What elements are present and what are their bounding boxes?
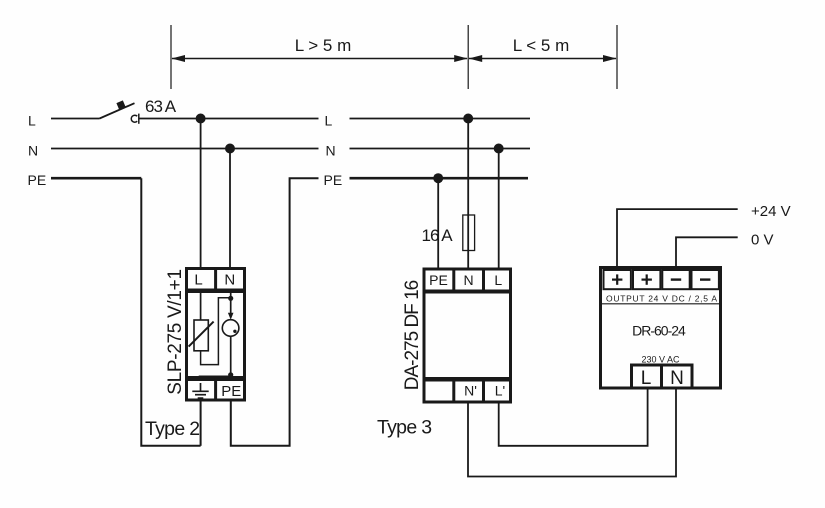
dimension line L < 5 m [469, 55, 617, 62]
wire with arrow into gas discharge tube [228, 298, 234, 319]
wire L node through fuse to DA N terminal [467, 119, 469, 269]
svg-text:Type 2: Type 2 [145, 418, 199, 440]
DA-275 terminal row bottom [424, 379, 511, 403]
wire DR 0V output [676, 237, 738, 267]
svg-text:L: L [641, 368, 652, 389]
DA-275 terminal row top [424, 268, 511, 292]
svg-text:L: L [28, 112, 36, 128]
switch 63A actuator square [116, 100, 125, 109]
node PE to DA PE terminal [433, 173, 443, 183]
wire L terminal to varistor [200, 292, 202, 321]
wire L bus to node [139, 118, 319, 120]
wire PE bus left [51, 177, 141, 180]
wire PE bus right [350, 177, 529, 180]
SLP-275 body U1 [187, 292, 245, 378]
wire DA L' to DR L terminal [499, 388, 648, 446]
DR terminal cell -2 [692, 270, 719, 289]
node L to fuse [463, 114, 473, 124]
minus symbol 2 [700, 278, 710, 280]
dimension line L > 5 m [172, 55, 468, 62]
wire SLP ground terminal down [200, 402, 202, 446]
svg-text:230 V AC: 230 V AC [641, 354, 680, 364]
wire N node to SLP N terminal [229, 149, 231, 268]
wire L node to SLP L terminal [200, 119, 202, 268]
svg-text:0 V: 0 V [751, 231, 774, 248]
gas discharge tube GDT1 [222, 320, 239, 337]
wire DA N' to DR N terminal [468, 388, 676, 477]
svg-text:PE: PE [28, 172, 47, 188]
svg-text:L < 5 m: L < 5 m [513, 36, 570, 55]
svg-text:N: N [670, 368, 684, 389]
varistor RV1 [189, 320, 214, 351]
svg-text:N': N' [464, 383, 477, 399]
DR terminal cell +1 [604, 270, 631, 289]
svg-text:N: N [326, 143, 336, 159]
svg-text:N: N [463, 272, 473, 288]
svg-text:SLP-275 V/1+1: SLP-275 V/1+1 [165, 269, 186, 395]
dot inside GDT [233, 330, 236, 333]
wire SLP PE terminal to PE bus [231, 178, 319, 446]
wire varistor bottom to N branch [201, 298, 231, 365]
ground symbol in SLP bottom-left cell [192, 383, 208, 398]
wire N bus left [51, 148, 319, 150]
svg-text:PE: PE [221, 383, 241, 400]
node inside SLP top [228, 296, 233, 301]
wire N bus right [350, 148, 531, 150]
svg-text:PE: PE [324, 172, 343, 188]
separator line DR [602, 303, 719, 305]
svg-text:L: L [325, 112, 333, 128]
plus symbol 2 [642, 274, 652, 284]
wire L bus left [51, 118, 100, 120]
svg-text:+24 V: +24 V [751, 203, 791, 220]
svg-text:16 A: 16 A [422, 226, 454, 245]
svg-text:DR-60-24: DR-60-24 [632, 323, 686, 339]
svg-text:L: L [194, 272, 202, 289]
DR-60-24 body U3 [601, 268, 721, 389]
DR terminal cell -1 [662, 270, 689, 289]
wire N node to DA L terminal [498, 149, 500, 269]
DR bottom terminal box [632, 364, 693, 389]
svg-text:L': L' [495, 383, 505, 399]
node L to SLP [196, 114, 206, 124]
svg-text:DA-275 DF 16: DA-275 DF 16 [402, 280, 423, 390]
svg-text:L: L [494, 272, 502, 288]
dimension extension tick left [170, 25, 172, 89]
wire PE node to DA PE terminal [437, 178, 439, 268]
svg-text:N: N [224, 272, 235, 289]
wire L bus right [350, 118, 531, 120]
minus symbol 1 [671, 278, 681, 280]
svg-text:N: N [28, 143, 38, 159]
wire N terminal into body [230, 292, 232, 299]
wire DR +24V output [617, 209, 738, 267]
switch 63A blade [100, 103, 135, 118]
wire bottom node to ground cell [199, 375, 231, 377]
svg-text:OUTPUT 24 V DC / 2,5 A: OUTPUT 24 V DC / 2,5 A [606, 293, 717, 303]
node N to DA L terminal [494, 144, 504, 154]
dimension extension tick right [616, 25, 618, 89]
plus symbol 1 [612, 274, 622, 284]
wire PE down left [141, 178, 200, 446]
DR terminal cell +2 [633, 270, 660, 289]
svg-text:63 A: 63 A [145, 97, 177, 116]
dimension extension tick middle [467, 25, 469, 89]
SLP-275 terminal row top [187, 267, 245, 290]
fuse F1 16A [463, 215, 475, 251]
svg-text:PE: PE [429, 272, 448, 288]
node N to SLP [225, 144, 235, 154]
svg-text:L > 5 m: L > 5 m [295, 36, 352, 55]
SLP-275 terminal row bottom [187, 378, 245, 401]
node inside SLP bottom [228, 372, 233, 377]
svg-text:Type 3: Type 3 [377, 417, 431, 439]
DA-275 body U2 [424, 292, 511, 379]
wire GDT to bottom node [230, 336, 232, 376]
switch 63A fixed contact [131, 114, 139, 124]
